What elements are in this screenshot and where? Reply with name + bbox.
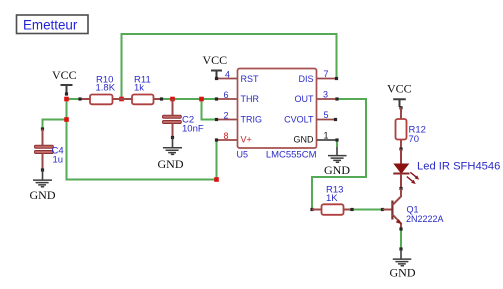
LED Led IR SFH4546: [393, 149, 500, 189]
svg-text:LMC555CM: LMC555CM: [266, 150, 317, 161]
svg-text:70: 70: [409, 134, 420, 145]
svg-text:CVOLT: CVOLT: [284, 114, 314, 124]
svg-text:4: 4: [225, 70, 230, 80]
capacitor C2: [163, 99, 204, 139]
svg-text:2N2222A: 2N2222A: [406, 214, 444, 224]
pin 6 THR stub: [217, 98, 238, 100]
svg-text:GND: GND: [324, 163, 350, 177]
power VCC3 above R12: [387, 82, 412, 110]
pin 8 V+ stub: [217, 139, 238, 141]
wire: OUT net from pin3 around to R13: [312, 99, 366, 210]
resistor R11: [122, 75, 164, 105]
junction C2 tap: [170, 97, 175, 102]
wire: pin1 to ground: [336, 140, 338, 147]
wire: feedback net from R10/R11 junction up and over to DIS pin7: [122, 34, 337, 99]
svg-text:7: 7: [324, 69, 329, 79]
svg-text:VCC: VCC: [52, 68, 77, 82]
svg-text:VCC: VCC: [203, 53, 228, 67]
junction R10/R11 feedback: [119, 97, 124, 102]
ground under C2: [158, 138, 184, 172]
wire: C4 branch: [43, 120, 67, 130]
capacitor C4: [35, 127, 64, 171]
pin 1 GND stub (black): [317, 139, 338, 141]
svg-text:1: 1: [324, 131, 329, 141]
pin 3 OUT stub: [317, 98, 338, 100]
svg-text:6: 6: [223, 90, 228, 100]
resistor R10: [78, 75, 121, 105]
pin 5 CVOLT stub: [317, 119, 336, 121]
svg-text:Q1: Q1: [407, 205, 419, 215]
emission arrow 1: [410, 172, 416, 177]
junction C4 tap: [64, 117, 69, 122]
wire: Q1 emitter to ground: [400, 229, 402, 249]
svg-text:3: 3: [323, 90, 328, 100]
resistor R12: [396, 108, 426, 151]
svg-text:GND: GND: [158, 157, 184, 171]
svg-text:Led IR SFH4546: Led IR SFH4546: [417, 161, 500, 173]
svg-text:GND: GND: [390, 266, 416, 280]
svg-text:Emetteur: Emetteur: [23, 18, 78, 33]
junction dot above LED: [399, 187, 402, 190]
svg-text:GND: GND: [294, 134, 315, 144]
svg-text:VCC: VCC: [387, 82, 412, 96]
svg-text:GND: GND: [30, 188, 56, 202]
pin 2 TRIG stub: [217, 119, 238, 121]
wire: TRIG branch from main net down to pin2: [202, 99, 217, 120]
svg-text:2: 2: [223, 111, 228, 121]
svg-text:8: 8: [223, 131, 228, 141]
svg-text:OUT: OUT: [295, 94, 315, 104]
emission arrow 2: [407, 177, 413, 182]
transistor Q1 2N2222A: [381, 189, 444, 231]
junction TRIG tap: [199, 97, 204, 102]
pin 4 RST stub: [217, 78, 238, 80]
wire: main net y=99 from VCC1 to pin6: [67, 98, 217, 100]
svg-text:1k: 1k: [134, 83, 144, 94]
pin 7 DIS stub: [317, 78, 337, 80]
IC body: [238, 69, 317, 149]
svg-text:V+: V+: [241, 134, 252, 144]
svg-text:TRIG: TRIG: [241, 114, 263, 124]
power VCC1: [52, 68, 77, 96]
svg-text:THR: THR: [241, 94, 260, 104]
svg-text:1.8K: 1.8K: [96, 83, 116, 94]
svg-text:1u: 1u: [53, 155, 64, 166]
label frame Emetteur: [17, 15, 89, 34]
power VCC2 above pin4: [203, 53, 228, 79]
svg-text:10nF: 10nF: [182, 124, 204, 135]
svg-text:5: 5: [324, 110, 329, 120]
ground under Q1 emitter: [390, 247, 416, 279]
timer IC U5 LMC555CM: [215, 69, 339, 161]
resistor R13: [310, 185, 353, 215]
svg-text:U5: U5: [237, 150, 249, 160]
ground under C4: [30, 170, 56, 202]
junction V+ corner: [214, 177, 219, 182]
wire: R13 to Q1 base: [352, 209, 383, 211]
ground under pin1: [324, 147, 350, 177]
svg-text:1K: 1K: [326, 193, 338, 204]
svg-text:RST: RST: [241, 74, 260, 84]
svg-text:DIS: DIS: [298, 74, 313, 84]
junction on main net at VCC1: [64, 97, 69, 102]
wire: VCC1 down the left side to V+ return: [67, 99, 217, 180]
